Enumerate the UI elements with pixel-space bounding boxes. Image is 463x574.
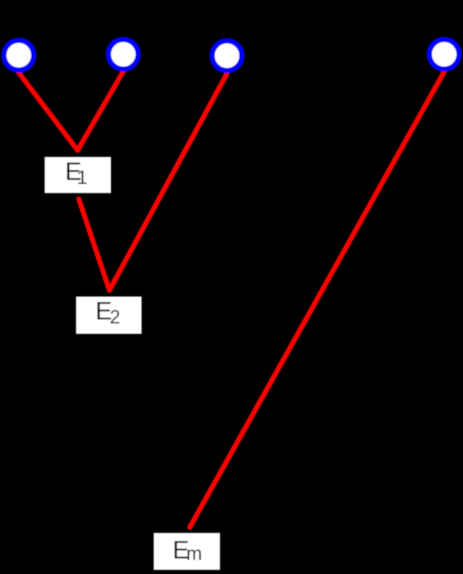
- node: leaf circle 1: [4, 40, 34, 70]
- wire: E1 to E2: [79, 199, 110, 290]
- wire: leaf 2 to E1: [78, 71, 124, 150]
- wire: leaf 4 to Em: [190, 72, 444, 528]
- node: leaf circle 2: [108, 39, 138, 69]
- node: leaf circle 4: [429, 39, 459, 69]
- node E1 box: [45, 157, 111, 193]
- node Em box: [154, 533, 220, 570]
- node: leaf circle 3: [212, 41, 242, 71]
- wire: leaf 3 to E2: [109, 73, 227, 290]
- wire: leaf 1 to E1: [19, 73, 78, 151]
- node E2 box: [76, 297, 142, 334]
